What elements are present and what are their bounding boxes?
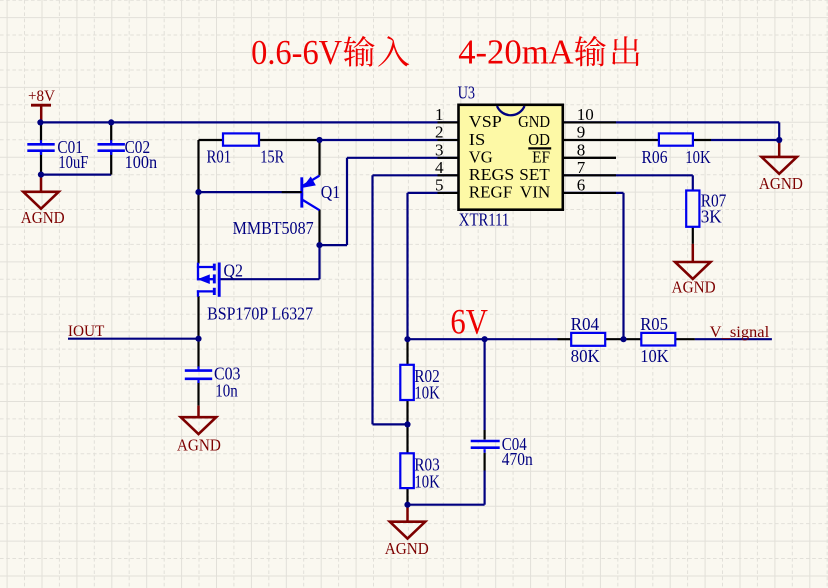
svg-text:VSP: VSP: [469, 112, 502, 131]
svg-text:80K: 80K: [571, 346, 600, 366]
svg-text:7: 7: [577, 158, 586, 177]
svg-text:IOUT: IOUT: [68, 323, 105, 340]
svg-text:R04: R04: [571, 314, 600, 334]
svg-text:0.6-6V: 0.6-6V: [251, 33, 342, 72]
svg-text:3K: 3K: [701, 207, 722, 227]
svg-text:8: 8: [577, 141, 586, 160]
svg-text:VG: VG: [469, 148, 493, 167]
svg-text:10K: 10K: [685, 147, 710, 167]
svg-text:6: 6: [577, 176, 586, 195]
svg-text:MMBT5087: MMBT5087: [233, 218, 314, 238]
svg-text:AGND: AGND: [21, 208, 65, 227]
svg-text:1: 1: [435, 105, 444, 124]
svg-text:470n: 470n: [502, 449, 533, 469]
svg-text:AGND: AGND: [759, 174, 803, 193]
svg-text:10: 10: [577, 105, 594, 124]
svg-text:XTR111: XTR111: [459, 209, 510, 229]
svg-text:SET: SET: [519, 165, 550, 184]
svg-text:U3: U3: [458, 82, 476, 102]
svg-text:IS: IS: [469, 130, 486, 149]
svg-text:3: 3: [435, 141, 444, 160]
svg-text:VIN: VIN: [520, 183, 551, 202]
svg-text:R01: R01: [207, 147, 232, 167]
svg-text:EF: EF: [532, 148, 550, 167]
svg-text:10K: 10K: [640, 346, 669, 366]
svg-text:AGND: AGND: [177, 435, 221, 454]
svg-text:REGF: REGF: [469, 183, 513, 202]
svg-text:REGS: REGS: [469, 165, 515, 184]
svg-text:100n: 100n: [125, 152, 158, 172]
svg-text:AGND: AGND: [672, 278, 716, 297]
svg-text:10n: 10n: [215, 381, 238, 401]
svg-text:6V: 6V: [450, 302, 488, 342]
svg-text:Q1: Q1: [321, 182, 341, 202]
svg-text:V_signal: V_signal: [710, 324, 770, 341]
svg-text:R06: R06: [642, 147, 668, 167]
svg-text:2: 2: [435, 123, 444, 142]
svg-text:9: 9: [577, 123, 586, 142]
svg-text:10uF: 10uF: [58, 152, 88, 172]
svg-text:OD: OD: [528, 130, 550, 149]
svg-text:15R: 15R: [260, 147, 284, 167]
svg-text:4: 4: [435, 158, 444, 177]
svg-text:+8V: +8V: [28, 88, 56, 105]
svg-text:BSP170P L6327: BSP170P L6327: [207, 304, 313, 324]
svg-text:10K: 10K: [414, 383, 439, 403]
svg-text:10K: 10K: [414, 471, 439, 491]
svg-text:Q2: Q2: [224, 260, 244, 280]
svg-text:5: 5: [435, 176, 444, 195]
svg-text:AGND: AGND: [385, 539, 429, 558]
svg-text:GND: GND: [518, 112, 550, 131]
svg-text:4-20mA: 4-20mA: [458, 33, 574, 72]
svg-text:R05: R05: [640, 314, 668, 334]
